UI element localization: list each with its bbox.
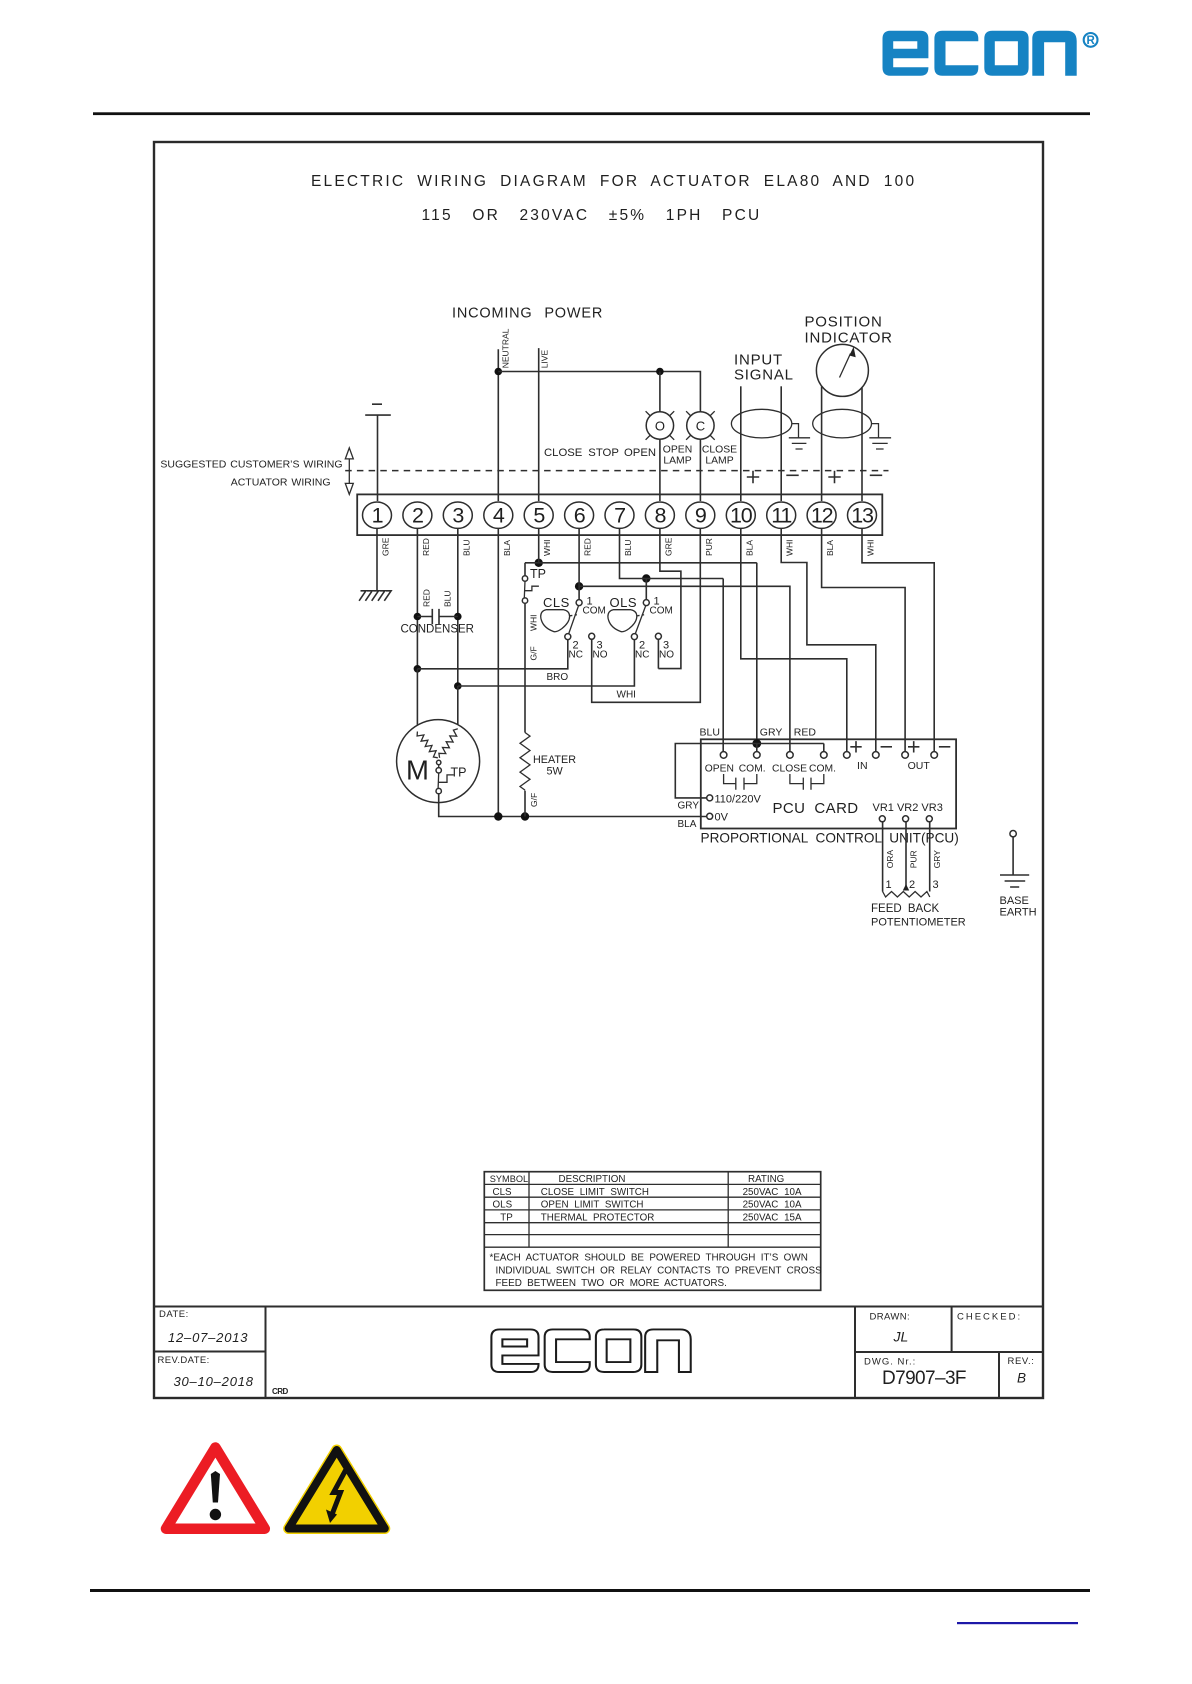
svg-text:WHI: WHI: [785, 539, 795, 556]
svg-text:RATING: RATING: [748, 1174, 784, 1185]
wire terminal 4 to common line: [497, 528, 499, 816]
node lamp O tap: [656, 368, 664, 376]
svg-text:250VAC 15A: 250VAC 15A: [743, 1212, 802, 1223]
svg-text:HEATER: HEATER: [533, 754, 576, 766]
svg-text:NO: NO: [593, 650, 608, 661]
node PCU com junction: [752, 739, 761, 748]
svg-text:D7907–3F: D7907–3F: [882, 1368, 966, 1389]
svg-text:RED: RED: [583, 538, 593, 556]
wire heater to common: [524, 791, 526, 817]
node T5 live junction: [535, 559, 543, 567]
wire neutral (vertical into terminal 4): [497, 349, 499, 501]
wire position indicator + (terminal 12): [821, 387, 823, 502]
wire terminal 6 to CLS COM: [578, 528, 580, 599]
chassis ground hatch: [359, 591, 391, 601]
hyperlink underline mark: [957, 1622, 1078, 1624]
wire neutral bus to lamps: [498, 372, 700, 413]
svg-text:CHECKED:: CHECKED:: [957, 1312, 1022, 1323]
wire VR3 to potentiometer: [929, 822, 931, 892]
base earth symbol: [1000, 831, 1029, 888]
symbol table frame: [484, 1172, 820, 1291]
ground at input signal shield: [789, 424, 810, 449]
svg-text:2: 2: [909, 879, 915, 891]
wire CLS COM to PCU CLOSE: [579, 586, 790, 752]
svg-text:4: 4: [493, 503, 505, 527]
PCU terminal OUT+: [902, 752, 909, 759]
terminal 2: [403, 502, 432, 528]
svg-text:C: C: [696, 418, 705, 433]
wire input signal - (terminal 11): [780, 386, 782, 501]
svg-text:BASE: BASE: [1000, 895, 1029, 907]
svg-text:10: 10: [730, 503, 753, 527]
svg-text:THERMAL PROTECTOR: THERMAL PROTECTOR: [541, 1212, 655, 1223]
wire lamp O to terminal 8: [659, 439, 661, 501]
svg-text:BLA: BLA: [502, 540, 512, 556]
wire live GRY drop to PCU: [756, 563, 758, 744]
wire VR1 to potentiometer: [882, 822, 884, 892]
svg-text:5: 5: [533, 503, 545, 527]
svg-text:BLA: BLA: [825, 540, 835, 556]
svg-text:LAMP: LAMP: [663, 455, 691, 466]
cable marker input signal: [731, 409, 791, 438]
PCU terminal 0V: [707, 813, 713, 819]
terminal 9: [686, 502, 715, 528]
svg-text:RED: RED: [421, 538, 431, 556]
wire terminal 2 into motor winding: [416, 669, 418, 732]
svg-text:PUR: PUR: [704, 538, 714, 556]
PCU terminal IN+: [844, 752, 851, 759]
cable marker position indicator: [813, 409, 872, 438]
svg-text:8: 8: [655, 503, 667, 527]
svg-text:JL: JL: [893, 1329, 909, 1345]
svg-text:G/F: G/F: [529, 793, 539, 807]
terminal 4: [484, 502, 513, 528]
svg-text:CLS: CLS: [543, 595, 570, 610]
svg-text:30–10–2018: 30–10–2018: [174, 1374, 254, 1389]
svg-text:SYMBOL: SYMBOL: [490, 1174, 528, 1184]
terminal 13: [848, 502, 877, 528]
svg-text:5W: 5W: [547, 765, 564, 777]
svg-text:COM.: COM.: [739, 764, 766, 775]
svg-text:RED: RED: [794, 727, 817, 739]
terminal strip box: [357, 494, 882, 535]
svg-text:SUGGESTED CUSTOMER’S WIRING: SUGGESTED CUSTOMER’S WIRING: [160, 458, 342, 470]
title block border lines: [154, 1307, 1043, 1399]
svg-text:R: R: [1086, 35, 1095, 47]
node common terminal4: [494, 812, 502, 820]
svg-text:COM.: COM.: [809, 764, 836, 775]
wire drop to open lamp: [659, 372, 661, 413]
wire VR2 to potentiometer wiper: [905, 822, 907, 888]
svg-text:12: 12: [811, 503, 833, 527]
svg-text:VR1 VR2 VR3: VR1 VR2 VR3: [873, 802, 943, 814]
svg-text:POSITION: POSITION: [805, 314, 883, 331]
svg-text:LIVE: LIVE: [540, 350, 550, 369]
terminal 10: [726, 502, 755, 528]
svg-text:CRD: CRD: [272, 1387, 289, 1396]
symbol table grid: [484, 1172, 820, 1248]
terminal 8: [645, 502, 674, 528]
svg-text:250VAC 10A: 250VAC 10A: [743, 1200, 802, 1211]
svg-text:INCOMING POWER: INCOMING POWER: [452, 306, 603, 322]
svg-text:FEED BETWEEN TWO OR MORE ACTUA: FEED BETWEEN TWO OR MORE ACTUATORS.: [496, 1278, 727, 1289]
svg-text:NC: NC: [569, 650, 583, 661]
svg-text:STOP: STOP: [588, 447, 619, 459]
heater resistor: [520, 733, 576, 791]
top rule: [93, 112, 1090, 115]
svg-text:OPEN: OPEN: [663, 445, 692, 456]
svg-text:*EACH ACTUATOR SHOULD BE POWER: *EACH ACTUATOR SHOULD BE POWERED THROUGH…: [490, 1253, 808, 1264]
PCU terminal 110/220V: [707, 795, 713, 801]
node neutral junction: [495, 368, 503, 376]
svg-text:GRY: GRY: [760, 727, 783, 739]
svg-text:OLS: OLS: [493, 1200, 513, 1211]
svg-text:OPEN: OPEN: [705, 764, 734, 775]
PCU terminal VR1: [879, 816, 885, 822]
svg-text:ORA: ORA: [885, 850, 895, 869]
econ logo (top right, blue): [883, 31, 1077, 76]
svg-text:INDICATOR: INDICATOR: [805, 330, 893, 347]
PCU terminal CLOSE: [787, 752, 794, 759]
svg-text:SIGNAL: SIGNAL: [734, 367, 794, 384]
potentiometer wiper arrow: [903, 884, 909, 891]
svg-text:2: 2: [412, 503, 423, 527]
wire terminal 7 to OLS COM bus: [620, 528, 724, 578]
svg-text:FEED BACK: FEED BACK: [871, 903, 940, 915]
terminal 12: [807, 502, 836, 528]
svg-text:11: 11: [771, 503, 791, 527]
svg-text:TP: TP: [451, 766, 467, 780]
node WHI junction on terminal3 wire: [454, 682, 462, 690]
PCU card box: [701, 739, 956, 828]
svg-text:COM: COM: [583, 606, 606, 617]
wire PCU com bus to 110/220V: [675, 744, 824, 798]
capacitor close-com: [790, 774, 824, 790]
wire lamp C to terminal 9: [699, 439, 701, 501]
svg-text:7: 7: [614, 503, 625, 527]
wire terminal 10 to PCU IN+: [741, 528, 847, 752]
terminal 1: [363, 502, 392, 528]
svg-text:0V: 0V: [715, 812, 729, 824]
wire terminal 13 to PCU OUT-: [862, 528, 934, 752]
svg-text:G/F: G/F: [529, 646, 539, 660]
separator dashed line customer/actuator: [345, 470, 888, 472]
svg-text:6: 6: [574, 503, 586, 527]
svg-text:ACTUATOR WIRING: ACTUATOR WIRING: [231, 477, 331, 489]
svg-text:BLU: BLU: [700, 727, 720, 739]
svg-text:CLOSE: CLOSE: [544, 447, 583, 459]
polarity labels IN/OUT: [850, 741, 950, 752]
svg-text:OLS: OLS: [610, 595, 638, 610]
svg-text:NC: NC: [635, 650, 649, 661]
wire position indicator - (terminal 13): [861, 388, 863, 501]
bottom rule: [90, 1589, 1090, 1592]
svg-text:WHI: WHI: [542, 539, 552, 556]
wire motor to common line: [439, 794, 707, 817]
polarity marks at separator: [747, 471, 882, 483]
svg-text:EARTH: EARTH: [1000, 906, 1037, 918]
terminal 3: [443, 502, 472, 528]
PCU terminal OPEN: [720, 752, 727, 759]
svg-text:LAMP: LAMP: [705, 455, 733, 466]
PCU terminal VR2: [903, 816, 909, 822]
wire terminal 8 to OLS NO: [658, 528, 681, 668]
lamp C (close lamp): [686, 411, 715, 440]
svg-text:WHI: WHI: [617, 690, 636, 701]
svg-text:BLU: BLU: [443, 590, 453, 607]
svg-text:CLS: CLS: [493, 1187, 513, 1198]
wire terminal 11 to PCU IN-: [781, 528, 876, 752]
svg-text:B: B: [1017, 1371, 1026, 1386]
svg-text:WHI: WHI: [529, 614, 539, 631]
wire input signal + (terminal 10): [740, 386, 742, 501]
PCU terminal IN-: [873, 752, 880, 759]
wire OLS COM stem: [645, 579, 647, 600]
warning triangle general (red): [166, 1448, 265, 1529]
terminal 11: [767, 502, 796, 528]
wire TP to heater: [524, 603, 526, 732]
node condenser right: [454, 613, 462, 621]
drawing frame: [154, 142, 1043, 1398]
svg-text:250VAC 10A: 250VAC 10A: [743, 1187, 802, 1198]
svg-text:CLOSE LIMIT SWITCH: CLOSE LIMIT SWITCH: [541, 1187, 649, 1198]
svg-text:CLOSE: CLOSE: [772, 764, 807, 775]
switch OLS: [608, 595, 674, 661]
svg-text:TP: TP: [530, 567, 546, 581]
svg-text:NEUTRAL: NEUTRAL: [501, 328, 511, 368]
svg-text:12–07–2013: 12–07–2013: [168, 1330, 248, 1345]
svg-text:OUT: OUT: [908, 760, 931, 772]
svg-text:PCU CARD: PCU CARD: [773, 800, 859, 817]
wire live (vertical into terminal 5): [538, 348, 540, 501]
terminal 7: [605, 502, 634, 528]
ground at position indicator shield: [869, 424, 891, 449]
wire terminal 3 down: [457, 528, 459, 686]
svg-text:OPEN LIMIT SWITCH: OPEN LIMIT SWITCH: [541, 1200, 644, 1211]
wire terminal 1 to chassis ground: [376, 528, 378, 590]
svg-text:OPEN: OPEN: [624, 447, 656, 459]
svg-text:3: 3: [933, 879, 939, 891]
wire OLS COM bus to PCU OPEN: [722, 579, 724, 752]
svg-text:BLA: BLA: [744, 540, 754, 556]
svg-text:COM: COM: [650, 606, 673, 617]
svg-text:IN: IN: [857, 760, 868, 772]
node BRO junction on terminal2 wire: [414, 665, 422, 673]
svg-text:110/220V: 110/220V: [715, 793, 762, 805]
svg-text:CLOSE: CLOSE: [702, 445, 737, 456]
svg-text:115 OR 230VAC ±5% 1PH PCU: 115 OR 230VAC ±5% 1PH PCU: [422, 207, 762, 224]
warning triangle electric (yellow): [289, 1450, 385, 1529]
svg-text:3: 3: [452, 503, 464, 527]
svg-text:BLA: BLA: [678, 819, 697, 830]
svg-text:WHI: WHI: [866, 539, 876, 556]
potentiometer resistor: [883, 892, 930, 898]
lamp O (open lamp): [646, 411, 675, 440]
svg-text:DESCRIPTION: DESCRIPTION: [559, 1174, 626, 1185]
svg-text:ELECTRIC WIRING DIAGRAM FOR AC: ELECTRIC WIRING DIAGRAM FOR ACTUATOR ELA…: [311, 173, 916, 190]
double arrow across separator: [345, 448, 353, 495]
wire BRO from CLS NC: [417, 640, 567, 669]
PCU terminal VR3: [926, 816, 932, 822]
svg-text:GRE: GRE: [663, 537, 673, 556]
svg-text:PUR: PUR: [909, 850, 919, 868]
svg-text:GRE: GRE: [381, 537, 391, 556]
svg-text:DWG. Nr.:: DWG. Nr.:: [864, 1357, 916, 1368]
earth symbol above terminal 1: [365, 404, 391, 501]
node OLS COM junction: [642, 574, 650, 582]
svg-text:M: M: [406, 755, 429, 786]
svg-text:TP: TP: [500, 1212, 513, 1223]
PCU terminal COM.2: [823, 744, 825, 752]
svg-text:9: 9: [695, 503, 706, 527]
position indicator gauge: [816, 344, 868, 396]
svg-text:NO: NO: [659, 650, 674, 661]
svg-text:CONDENSER: CONDENSER: [401, 624, 474, 636]
svg-text:1: 1: [886, 879, 892, 891]
node common heater: [521, 812, 529, 820]
svg-text:REV.DATE:: REV.DATE:: [158, 1355, 210, 1366]
svg-text:DRAWN:: DRAWN:: [870, 1312, 911, 1323]
terminal 6: [565, 502, 594, 528]
svg-text:PROPORTIONAL CONTROL UNIT(PCU): PROPORTIONAL CONTROL UNIT(PCU): [701, 831, 959, 846]
econ outline logo (bottom): [491, 1329, 690, 1372]
svg-text:DATE:: DATE:: [159, 1309, 189, 1320]
svg-text:O: O: [655, 418, 665, 433]
svg-text:RED: RED: [422, 589, 432, 607]
svg-text:POTENTIOMETER: POTENTIOMETER: [871, 916, 966, 928]
wire WHI from OLS NC: [458, 640, 635, 686]
capacitor condenser: [417, 609, 457, 624]
terminal 5: [524, 502, 553, 528]
svg-text:GRY: GRY: [932, 850, 942, 869]
svg-text:1: 1: [372, 503, 383, 527]
thermal protector TP (top): [522, 567, 546, 603]
PCU terminal COM.: [756, 744, 758, 752]
svg-text:BLU: BLU: [623, 539, 633, 556]
motor M: [397, 720, 480, 803]
wire terminal 12 to PCU OUT+: [822, 528, 906, 752]
svg-text:GRY: GRY: [678, 801, 700, 812]
svg-text:REV.:: REV.:: [1008, 1356, 1035, 1367]
svg-text:INDIVIDUAL SWITCH OR RELAY CON: INDIVIDUAL SWITCH OR RELAY CONTACTS TO P…: [496, 1265, 823, 1276]
registered mark: [1084, 33, 1098, 47]
svg-text:BLU: BLU: [461, 539, 471, 556]
PCU terminal OUT-: [931, 752, 938, 759]
svg-text:BRO: BRO: [547, 672, 569, 683]
wire terminal 2 down: [416, 528, 418, 668]
capacitor open-com: [724, 774, 757, 790]
switch CLS: [541, 595, 608, 661]
node CLS COM junction: [575, 582, 583, 590]
wire live bus TP to PCU gry drop: [525, 528, 757, 576]
wire terminal 9 to CLS NO: [592, 528, 701, 702]
terminals 1-13: [363, 502, 877, 556]
svg-text:13: 13: [851, 503, 874, 527]
wire terminal 3 into motor winding: [457, 686, 459, 729]
node condenser left: [414, 613, 422, 621]
